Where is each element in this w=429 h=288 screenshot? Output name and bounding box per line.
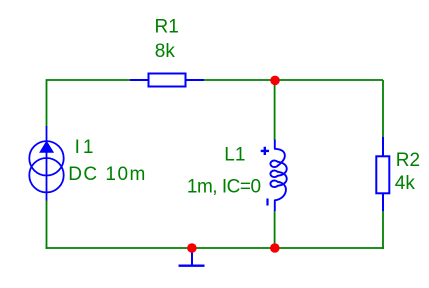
svg-text:R1: R1 [155,17,179,38]
svg-text:I1: I1 [75,137,97,158]
inductor L1 minus polarity mark [266,199,268,206]
ground [179,248,205,266]
junction node bottom middle [270,243,280,253]
inductor L1 plus polarity mark [261,147,269,155]
inductor L1 coil [270,140,286,212]
wire right side [382,80,384,137]
wire middle top [274,80,276,140]
wire top-right segment [204,79,383,81]
svg-text:DC 10m: DC 10m [68,164,147,185]
svg-text:R2: R2 [396,150,420,171]
wire bottom [46,247,384,249]
svg-text:4k: 4k [395,173,416,194]
junction node ground [187,243,197,253]
wire right lower [382,211,384,249]
wire middle bottom [274,211,276,249]
resistor R2 [376,137,389,211]
wire top-left segment [47,80,131,127]
current source I1 arrow [40,142,53,153]
junction node top [270,76,280,86]
wire left lower [46,201,48,249]
svg-text:L1: L1 [224,144,245,165]
svg-text:8k: 8k [155,41,176,62]
current source I1 [29,126,63,201]
svg-text:1m, IC=0: 1m, IC=0 [187,176,261,197]
resistor R1 [130,74,204,87]
